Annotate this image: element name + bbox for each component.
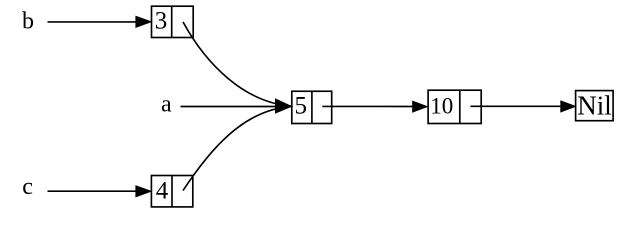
svg-text:c: c [22, 174, 33, 200]
svg-text:Nil: Nil [577, 91, 612, 121]
svg-text:5: 5 [295, 93, 308, 120]
svg-text:a: a [161, 92, 172, 118]
svg-text:4: 4 [156, 178, 169, 205]
svg-text:10: 10 [430, 94, 453, 119]
svg-text:3: 3 [155, 8, 168, 35]
svg-text:b: b [22, 8, 34, 34]
